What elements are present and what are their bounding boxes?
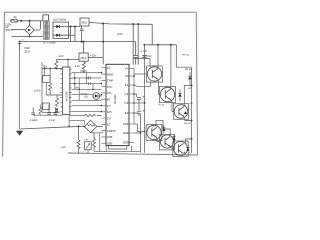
- node at x103: [102, 23, 104, 25]
- svg-text:LED: LED: [84, 96, 89, 99]
- svg-text:3A: 3A: [13, 15, 17, 19]
- wire U2 output rail: [89, 22, 152, 24]
- svg-text:U01: U01: [123, 122, 129, 126]
- svg-text:0R 5W: 0R 5W: [185, 68, 193, 71]
- wire Q6 collector: [185, 139, 192, 143]
- node U02 x140: [140, 132, 142, 134]
- svg-text:CT: CT: [107, 104, 111, 108]
- svg-text:C1: C1: [125, 92, 129, 96]
- wire x140 bottom rail: [140, 114, 142, 153]
- ladder node c: [56, 68, 58, 70]
- IC U1 pins left: [101, 68, 106, 143]
- wire drop to ground rail b: [74, 27, 76, 42]
- capacitor C8b mid right: [137, 112, 141, 116]
- pot WR1 arrow: [86, 144, 90, 149]
- rectifier block D1 D2: [53, 22, 69, 38]
- IC U4 pins right: [69, 69, 72, 111]
- node gnd rail: [81, 41, 83, 43]
- resistor R3 horizontal: [85, 114, 102, 116]
- svg-text:CMPR: CMPR: [107, 129, 117, 133]
- component box B1: [44, 69, 46, 76]
- diode D5: [188, 76, 192, 79]
- pot bridge diamond: [84, 120, 97, 133]
- wire bottom loop under U1: [94, 146, 141, 152]
- resistor R1: [55, 60, 58, 70]
- heatsink square Q3: [173, 104, 188, 120]
- wire U3 top feed: [83, 42, 85, 53]
- ladder node b: [49, 68, 51, 70]
- Q6 emitter arrow: [184, 152, 186, 154]
- capacitor C4 on x135: [134, 42, 138, 65]
- svg-text:CS+: CS+: [107, 85, 113, 89]
- svg-text:7815: 7815: [81, 21, 88, 25]
- wire left ladder rail: [42, 62, 63, 112]
- LED D4: [93, 93, 100, 100]
- wire base Q1: [134, 73, 148, 75]
- diode D2: [56, 34, 59, 37]
- heatsink square Q2: [160, 86, 176, 102]
- node U4 top feed: [67, 59, 69, 61]
- wire rail corner down: [151, 24, 153, 45]
- wire AC line 2 under bridge: [12, 35, 43, 37]
- node AC line2: [29, 35, 31, 37]
- wire C1 pin to C7: [134, 94, 137, 97]
- bridge internal diode: [28, 29, 31, 32]
- transistor Q1: [147, 67, 161, 81]
- capacitor C10: [54, 107, 58, 115]
- wire cap row bus: [33, 114, 62, 116]
- wire pot bottom stub: [87, 150, 89, 154]
- wire U3 input: [56, 59, 79, 61]
- pin bus x134: [133, 69, 135, 124]
- comb bus wires between U4 and U1: [72, 73, 102, 112]
- svg-text:H0 ua: H0 ua: [183, 53, 190, 56]
- heatsink square Q4: [146, 124, 162, 140]
- svg-text:DGCT9094: DGCT9094: [53, 19, 67, 22]
- transistor Q5: [160, 135, 173, 148]
- resistor R4 small: [39, 105, 42, 116]
- transformer T1 primary hatch: [44, 21, 46, 40]
- svg-text:E2: E2: [125, 111, 129, 115]
- wire drop x138: [137, 24, 139, 64]
- svg-text:GND: GND: [107, 72, 115, 76]
- IC U4 pins left: [60, 69, 62, 111]
- svg-text:U03: U03: [123, 141, 129, 145]
- svg-text:1.5K0: 1.5K0: [34, 90, 41, 93]
- svg-text:0.68uF: 0.68uF: [30, 119, 38, 122]
- heatsink square Q5: [160, 135, 175, 150]
- svg-text:0.1uF: 0.1uF: [141, 50, 148, 53]
- svg-text:U05: U05: [107, 142, 113, 146]
- svg-text:E1: E1: [125, 83, 129, 87]
- component box B2: [43, 103, 50, 110]
- svg-text:+0 ua: +0 ua: [158, 104, 165, 107]
- wire vcc drop to U1: [102, 24, 104, 65]
- wire Q2 emitter to Q3 base: [171, 100, 175, 112]
- resistor R7 under U3: [83, 61, 86, 72]
- wire Q4 collector: [156, 120, 164, 126]
- diode D10: [186, 148, 189, 151]
- wire U1 U01 to Q4 base: [134, 124, 146, 132]
- Q4 emitter arrow: [154, 135, 156, 137]
- wire U4 gnd drop: [68, 116, 70, 127]
- IC U1 pin labels right: [123, 67, 129, 145]
- wire Q2 collector: [170, 45, 172, 90]
- node bridge top tap: [29, 20, 31, 22]
- transformer T1 primary: [43, 15, 49, 40]
- svg-text:50K: 50K: [43, 66, 48, 69]
- node Q1 collector rail: [157, 44, 159, 46]
- svg-text:INPUT: INPUT: [5, 28, 14, 32]
- resistor R5 vertical: [77, 126, 80, 151]
- node on AC top wire: [20, 20, 22, 22]
- capacitor row C8: [31, 107, 35, 115]
- node DC rail b: [74, 26, 76, 28]
- capacitor C9: [47, 105, 51, 116]
- wire DC+ rail to regulator: [69, 26, 81, 28]
- wire upper right bus: [146, 44, 176, 46]
- svg-text:+15V: +15V: [117, 33, 124, 36]
- heatsink square Q1: [147, 66, 163, 82]
- pin bus dots: [133, 75, 135, 114]
- wire U1 U02 row: [134, 132, 141, 134]
- node ground bus at 69: [68, 126, 70, 128]
- IC U1 pins right: [129, 69, 134, 143]
- node Q6 collector: [191, 138, 193, 140]
- transformer T1 core: [45, 20, 48, 40]
- wire Q5 emitter to Q6 base: [170, 147, 175, 149]
- svg-text:CS-: CS-: [107, 91, 112, 95]
- border frame left: [3, 12, 5, 156]
- svg-text:6.3K: 6.3K: [75, 65, 80, 68]
- transformer T1 secondary: [47, 21, 49, 40]
- node R5 top: [78, 125, 80, 127]
- ground symbol: [17, 131, 23, 135]
- wire pot top tap: [69, 120, 84, 124]
- wire AC top from fuse to transformer: [18, 20, 43, 22]
- transistor Q3: [174, 105, 188, 119]
- svg-text:0.1uF: 0.1uF: [49, 119, 56, 122]
- wire Q3 emitter down: [184, 117, 192, 121]
- diode D1: [56, 25, 59, 28]
- node DC rail a: [70, 26, 72, 28]
- svg-text:25V: 25V: [25, 50, 30, 54]
- node Q2 collector rail: [170, 44, 172, 46]
- wire LED row: [72, 95, 102, 96]
- wire U1 E1 to Q1 emitter: [134, 81, 151, 86]
- IC U4 body: [63, 67, 70, 115]
- Q5 emitter arrow: [168, 145, 170, 147]
- svg-text:CA: CA: [107, 116, 111, 120]
- resistor R2: [55, 95, 62, 107]
- ground rail DC-: [20, 41, 136, 43]
- svg-text:U02: U02: [123, 131, 129, 135]
- wire drop to ground rail a: [70, 27, 72, 42]
- wire Q3 collector up: [184, 86, 192, 107]
- wire inner loop under U1: [109, 146, 127, 149]
- svg-text:Vc: Vc: [125, 74, 129, 78]
- transformer T1 secondary hatch: [47, 21, 49, 40]
- node rail x144 top: [144, 44, 146, 46]
- svg-text:+15V: +15V: [90, 55, 97, 58]
- comb junction dots: [74, 72, 102, 112]
- node C2 x144: [144, 102, 146, 104]
- wire ground bus bottom: [20, 126, 85, 129]
- wire drop x133: [132, 24, 134, 64]
- wire U4 bottom to bridge pot: [69, 115, 84, 117]
- svg-text:uO: uO: [188, 87, 191, 90]
- node rail x138: [137, 23, 139, 25]
- IC U1 pin labels left: [107, 66, 117, 145]
- wire base feed Q1: [134, 59, 150, 68]
- transistor Q2: [160, 87, 174, 101]
- resistor R8 mid ladder: [49, 69, 52, 96]
- Q3 emitter arrow: [182, 115, 184, 117]
- ladder node a: [44, 68, 46, 70]
- wire secondary lower to rail: [69, 34, 76, 36]
- diode D6: [178, 93, 182, 96]
- wire Q4 emitter to Q5 base: [156, 137, 161, 142]
- node gnd rail c: [102, 41, 104, 43]
- svg-text:1.001: 1.001: [60, 146, 67, 149]
- svg-text:7812: 7812: [80, 56, 87, 60]
- wire rail x144: [144, 45, 146, 153]
- transistor Q4: [147, 125, 161, 139]
- svg-text:C2: C2: [125, 101, 129, 105]
- svg-text:10K: 10K: [75, 87, 80, 90]
- Q2 emitter arrow: [169, 98, 171, 100]
- wire Q1 emitter to Q2 base: [158, 79, 161, 94]
- fuse F1 3A: [11, 19, 18, 22]
- capacitor C7 mid right: [137, 98, 141, 112]
- svg-text:MC3420: MC3420: [114, 94, 117, 104]
- svg-text:CMP: CMP: [107, 79, 114, 83]
- bridge rectifier BR1: [25, 21, 34, 37]
- wire pot bottom out: [91, 127, 103, 133]
- node U3 feed: [83, 41, 85, 43]
- border frame bottom: [68, 153, 198, 155]
- node x191 a: [191, 85, 193, 87]
- comb verticals: [75, 73, 93, 101]
- node x191 b: [191, 120, 193, 122]
- wire U3 output: [88, 57, 103, 59]
- regulator U2: [80, 18, 89, 26]
- border frame right: [196, 12, 197, 155]
- diode D9: [172, 137, 175, 140]
- svg-text:RT: RT: [107, 98, 111, 102]
- diode D3: [56, 109, 59, 112]
- node ground bus at 84: [84, 126, 86, 128]
- wire Q1 collector: [157, 45, 160, 69]
- Q1 emitter arrow: [156, 78, 158, 80]
- svg-text:H0 uA: H0 uA: [184, 122, 191, 125]
- svg-text:DIS: DIS: [107, 110, 112, 114]
- wire B2 stub: [41, 105, 44, 107]
- svg-text:V+: V+: [125, 67, 129, 71]
- wire U1 E2 to x140: [134, 112, 139, 114]
- wire U4 top pin: [67, 60, 69, 68]
- filter capacitor C1: [18, 43, 22, 50]
- resistor R6 vertical: [93, 133, 96, 151]
- wire right vert x176: [176, 45, 191, 67]
- IC U1 body: [106, 64, 129, 145]
- svg-text:8T-0 1WW: 8T-0 1WW: [43, 42, 56, 45]
- diode D7: [184, 111, 187, 114]
- regulator U3: [79, 53, 88, 61]
- capacitor marks on comb: [89, 77, 91, 86]
- border frame top: [5, 11, 197, 13]
- wire Q5 collector: [163, 120, 170, 137]
- svg-text:U06: U06: [107, 135, 113, 139]
- wire U1 C2 to x144: [134, 102, 145, 104]
- pot WR1: [85, 142, 92, 150]
- node rail x133: [132, 23, 134, 25]
- transistor Q6: [174, 142, 188, 156]
- wire right rail x191: [191, 67, 193, 153]
- wire AC line 1 into bridge: [12, 29, 26, 31]
- svg-text:HA17324: HA17324: [66, 91, 69, 102]
- capacitor C6 input: [80, 26, 84, 42]
- wire mid verticals lower: [99, 133, 101, 152]
- wire C1 down to ground: [19, 50, 21, 129]
- node C1 top: [19, 41, 21, 43]
- wire bridge right vertex to primary: [34, 21, 40, 30]
- wire R5 bottom stub: [78, 151, 80, 154]
- heatsink square Q6: [173, 141, 188, 156]
- capacitor C5 on x144: [142, 56, 146, 58]
- diode D8: [162, 128, 165, 131]
- svg-text:12V: 12V: [59, 55, 64, 58]
- svg-text:470: 470: [84, 139, 89, 142]
